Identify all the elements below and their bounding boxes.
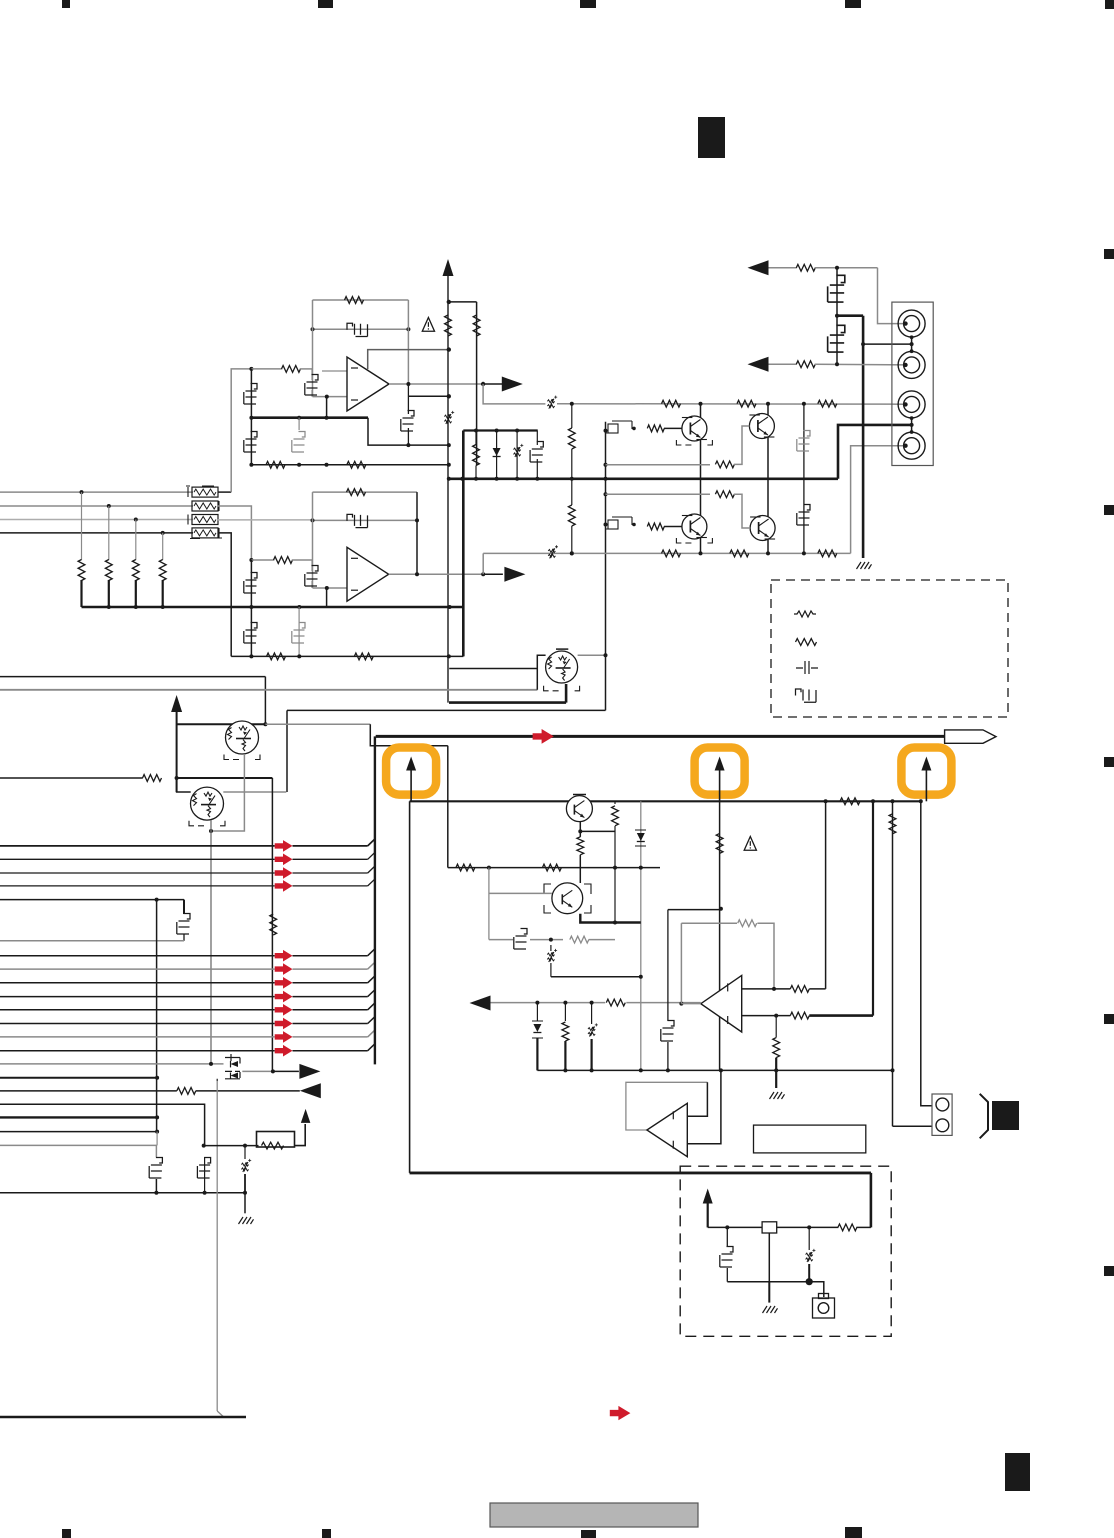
resistor U2 plus bbox=[790, 986, 809, 993]
node chA bias 3 bbox=[325, 416, 329, 420]
registration mark top 1 bbox=[62, 0, 70, 8]
node U2 minus bbox=[774, 1014, 778, 1018]
resistor chB row 1 bbox=[267, 653, 286, 660]
ground left low bbox=[239, 1217, 254, 1224]
wire chA vcc2 vertical bbox=[476, 302, 478, 465]
node vcc pair bbox=[447, 300, 451, 304]
node ctrl b bbox=[563, 1001, 567, 1005]
resistor block row a bbox=[456, 864, 475, 871]
ferrite bead FB2 bbox=[192, 501, 218, 511]
wire rly row out bbox=[295, 1124, 306, 1146]
wire box gnd drop bbox=[768, 1282, 770, 1303]
wire opampA plus stub bbox=[322, 370, 347, 372]
wire U3 plus stub bbox=[687, 1082, 707, 1116]
wire left black 1 bbox=[0, 1077, 157, 1079]
node rail bb5 bbox=[719, 1068, 723, 1072]
wire U2 minus riser thick bbox=[872, 801, 874, 1015]
wire riser channel A bbox=[231, 369, 251, 492]
black index square lower right bbox=[1005, 1453, 1030, 1491]
node rail bb1 bbox=[563, 1068, 567, 1072]
wire chA cap vertical bbox=[298, 418, 300, 430]
resistor R-in3 bbox=[132, 560, 139, 581]
wire output row1 bbox=[557, 403, 906, 406]
transistor T1 bbox=[226, 721, 259, 754]
connector RCA jack pin 2 bbox=[898, 351, 925, 378]
legend resistor straight bbox=[794, 611, 816, 617]
node chA caprow fb bbox=[406, 443, 410, 447]
wire opampA input bbox=[251, 368, 282, 370]
node block row c bbox=[639, 866, 643, 870]
node rail b1 bbox=[474, 477, 478, 481]
ferrite bead FB3 bbox=[192, 515, 218, 525]
node opampA vplus bbox=[447, 347, 451, 351]
registration mark right 1 bbox=[1104, 249, 1114, 259]
wire gate to column bbox=[589, 939, 615, 941]
wire block top bbox=[410, 800, 921, 802]
resistor out left lower bbox=[568, 505, 575, 526]
wire U2 comp top bbox=[668, 909, 721, 911]
wire bus group2 line 2 bbox=[0, 968, 275, 970]
wire opampB fb left vertical bbox=[312, 492, 314, 588]
resistor block row b bbox=[542, 864, 561, 871]
wire left vert 157 bbox=[156, 900, 158, 1132]
varistor chA bbox=[444, 415, 451, 418]
node rail r2 bbox=[107, 605, 111, 609]
node chA row b bbox=[325, 463, 329, 467]
ferrite bead FB1 bbox=[192, 487, 218, 497]
arrow RCA 2 bbox=[748, 357, 769, 372]
wire opampA vplus bbox=[368, 350, 449, 370]
wire collector left bbox=[700, 404, 702, 554]
node left gray bbox=[209, 1062, 213, 1066]
resistor R-in1 bbox=[78, 560, 85, 581]
node branch2 top bbox=[495, 429, 499, 433]
wire TR1 base bend bbox=[734, 426, 750, 464]
red arrow main bus bbox=[533, 729, 554, 744]
wire opampB output bbox=[389, 573, 484, 575]
wire bus group2 line 8 bbox=[0, 1050, 275, 1052]
wire bus group1 line 3 bbox=[0, 872, 275, 874]
node out left bot bbox=[570, 551, 574, 555]
node chA vcc rail bbox=[447, 477, 451, 481]
wire bus group2 line 1 bbox=[0, 955, 275, 957]
node opampB cap left bbox=[311, 518, 315, 522]
wire U2 plus riser bbox=[825, 801, 827, 989]
resistor TR2 base bbox=[715, 491, 734, 498]
wire power corner bbox=[870, 1173, 873, 1228]
mosfet chB upper bbox=[244, 573, 257, 594]
node out row2 a bbox=[570, 551, 574, 555]
wire varistor drop bbox=[550, 945, 552, 951]
wire jack gnd bar top bbox=[911, 337, 913, 352]
transistor T5 bbox=[552, 883, 583, 914]
resistor TL2 base bbox=[647, 523, 664, 530]
highlight orange box 1 bbox=[386, 748, 436, 795]
varistor out row2 bbox=[548, 550, 555, 553]
wire RCA2 bbox=[769, 363, 797, 365]
node chB row c bbox=[447, 654, 451, 658]
wire frame mid bbox=[287, 709, 606, 711]
capacitor opampA feedback bbox=[347, 323, 368, 336]
capacitor left low2 bbox=[197, 1158, 210, 1179]
bias network lower bbox=[608, 520, 618, 529]
wire box bottom rail bbox=[727, 1281, 824, 1283]
resistor block gate bbox=[570, 936, 589, 943]
wire mosfet out gray bbox=[242, 1070, 273, 1072]
wire mosfet out black bbox=[273, 1070, 299, 1072]
node left 1077 bbox=[155, 1076, 159, 1080]
red arrow group1 1 bbox=[275, 840, 293, 852]
wire chA corner to caprow bbox=[368, 418, 449, 445]
registration mark bottom 3 bbox=[581, 1530, 596, 1538]
transistor out TL1 bbox=[682, 416, 707, 441]
node chA bias 2 bbox=[297, 416, 301, 420]
red arrow group1 3 bbox=[275, 867, 293, 879]
node rail b3 bbox=[515, 477, 519, 481]
node chB row a bbox=[249, 654, 253, 658]
wire left gray line bbox=[0, 1063, 224, 1065]
red arrow group2 2 bbox=[275, 963, 293, 975]
node rail cap1 bbox=[154, 1191, 158, 1195]
power arrow small bbox=[301, 1109, 311, 1123]
wire control out2 bbox=[626, 1002, 701, 1004]
red arrow group2 1 bbox=[275, 950, 293, 962]
transistor T4 bbox=[566, 796, 592, 822]
wire U3 box bbox=[626, 1082, 708, 1130]
op-amp channel A bbox=[347, 357, 389, 411]
resistor orange2 riser bbox=[716, 833, 723, 853]
node opampB minus bbox=[325, 586, 329, 590]
wire U3 minus stub bbox=[687, 1070, 721, 1143]
resistor TL1 base bbox=[647, 425, 664, 432]
row block resistors bbox=[448, 867, 660, 869]
node opampA out fb bbox=[406, 382, 410, 386]
wire bias column bbox=[605, 422, 607, 711]
bracket TL2 bbox=[676, 538, 712, 543]
connector RCA jack body bbox=[892, 302, 933, 465]
wire branch top bbox=[463, 429, 537, 431]
red arrow group1 4 bbox=[275, 880, 293, 892]
wire block left bbox=[409, 801, 411, 1173]
wire RCA thick right bbox=[837, 314, 863, 317]
node block top 3 bbox=[891, 799, 895, 803]
registration mark top 2 bbox=[318, 0, 333, 8]
node relay a bbox=[725, 1225, 729, 1229]
highlight orange box 2 bbox=[695, 748, 745, 795]
node input line 3 bbox=[134, 518, 138, 522]
wire TR1 base row bbox=[606, 464, 711, 466]
node rail r4 bbox=[161, 605, 165, 609]
capacitor out lower bbox=[797, 505, 810, 526]
mosfet block gate bbox=[514, 929, 527, 950]
wire T1 collector up bbox=[264, 677, 266, 725]
varistor box bottom bbox=[808, 1227, 810, 1250]
node out left mid bbox=[570, 477, 574, 481]
wire main bus bbox=[376, 735, 945, 738]
capacitor chA output bbox=[401, 411, 414, 432]
resistor ctrl branch2 bbox=[564, 1003, 566, 1021]
wire bus group1 line 1 bbox=[0, 845, 275, 847]
wire resistor R-in3 bottom bbox=[135, 580, 137, 607]
wire frame mid drop bbox=[286, 710, 288, 792]
wire out gray rail bbox=[483, 552, 850, 554]
wire chA minus drop bbox=[326, 397, 328, 418]
ground box bbox=[763, 1306, 778, 1313]
node RCA2 bbox=[835, 362, 839, 366]
mosfet chA upper bbox=[244, 384, 257, 405]
zener branch2 bbox=[496, 431, 498, 479]
wire input line 4 bbox=[0, 532, 193, 534]
wire conn col 2 bbox=[921, 801, 932, 1105]
node left 1131 bbox=[155, 1130, 159, 1134]
wire power thick bottom bbox=[410, 1172, 871, 1175]
node opampA input bbox=[249, 367, 253, 371]
wire left vert157 ext bbox=[156, 1132, 158, 1146]
wire cap chain bbox=[836, 268, 838, 364]
rail supply thick bbox=[448, 477, 838, 480]
wire relay row end bbox=[856, 1226, 871, 1228]
capacitor out upper bbox=[797, 431, 810, 452]
transistor out TR2 bbox=[750, 516, 775, 541]
wire bus group2 line 3 bbox=[0, 982, 275, 984]
registration mark bottom 4 bbox=[845, 1527, 862, 1538]
node rly row a bbox=[202, 1144, 206, 1148]
wire opampA cap row bbox=[313, 328, 409, 330]
node rly row b bbox=[243, 1144, 247, 1148]
node rail b2 bbox=[495, 477, 499, 481]
wire U2 fb top bbox=[681, 922, 737, 924]
bracket T1 bbox=[224, 755, 260, 760]
node chA vcc thick bbox=[448, 605, 452, 609]
wire bus group1 line 4 bbox=[0, 885, 275, 887]
component motor bbox=[813, 1298, 835, 1318]
node RCA mid bbox=[835, 314, 839, 318]
wire input line 2 bbox=[0, 505, 193, 507]
wire opampB fb right vertical bbox=[416, 492, 418, 574]
arrow control out bbox=[470, 996, 491, 1011]
registration mark right 2 bbox=[1104, 505, 1114, 515]
wire T2 emitter long bbox=[210, 820, 212, 1064]
row chA resistor row bbox=[251, 464, 448, 466]
node varistor row bbox=[639, 975, 643, 979]
resistor block top bbox=[840, 798, 860, 805]
resistor branch1 bbox=[473, 445, 480, 466]
resistor VCC A2 bbox=[473, 315, 480, 336]
wire left res line bbox=[0, 1090, 177, 1092]
black index rectangle bbox=[698, 117, 725, 158]
row block gate bbox=[489, 939, 513, 941]
node opampB out tap bbox=[481, 572, 485, 576]
wire RCA1 to corner bbox=[815, 267, 878, 269]
wire RCA2 to jack bbox=[815, 363, 906, 366]
node U2 comp bbox=[719, 907, 723, 911]
wire bus group2 line 4 bbox=[0, 996, 275, 998]
wire vcc column lower bbox=[449, 701, 566, 704]
wire jack gnd bar bottom bbox=[911, 418, 913, 433]
wire T2 corner bbox=[177, 778, 191, 792]
wire center column bbox=[640, 801, 642, 1070]
node opampA out stub bbox=[447, 394, 451, 398]
node chA vcc row bbox=[447, 463, 451, 467]
legend capacitor styled bbox=[796, 689, 817, 702]
registration mark top 4 bbox=[845, 0, 861, 8]
resistor R-in4 bbox=[159, 560, 166, 581]
wire conn col 1 bbox=[892, 801, 894, 1126]
node input line 2 bbox=[107, 504, 111, 508]
wire rly row bbox=[204, 1145, 259, 1147]
ferrite bead FB4 bbox=[192, 528, 218, 538]
resistor TR1 base bbox=[715, 461, 734, 468]
resistor opampB input bbox=[274, 557, 293, 564]
wire relay drop bbox=[768, 1233, 770, 1282]
arrow up highlighted 1 bbox=[406, 757, 416, 771]
node mosfet out bbox=[271, 1069, 275, 1073]
node block gate bbox=[549, 938, 553, 942]
wire TL2 base bbox=[664, 526, 682, 528]
node T1 top bbox=[263, 722, 267, 726]
resistor out row2 a bbox=[662, 550, 681, 557]
node ctrl c bbox=[590, 1001, 594, 1005]
bias network upper bbox=[608, 424, 618, 433]
arrow RCA 1 bbox=[748, 260, 769, 275]
wire control out bbox=[491, 1002, 606, 1004]
node out row1 a bbox=[699, 402, 703, 406]
wire U2 plus row bbox=[742, 988, 791, 990]
mosfet opampA input bbox=[305, 375, 318, 396]
wire cap drop vertical bbox=[183, 900, 185, 914]
wire motor drop bbox=[809, 1282, 824, 1297]
node opampB input bbox=[249, 558, 253, 562]
registration mark top 3 bbox=[580, 0, 596, 8]
node out left top bbox=[570, 402, 574, 406]
wire T5 base bbox=[489, 892, 552, 894]
wire resistor R-in2 bottom bbox=[108, 580, 110, 607]
op-amp U2 bbox=[701, 975, 742, 1032]
node rail bb3 bbox=[639, 1068, 643, 1072]
arrow up highlighted 3 bbox=[921, 757, 931, 771]
node input line 1 bbox=[80, 490, 84, 494]
node chA caprow gnd bbox=[447, 443, 451, 447]
node out row1 c bbox=[802, 402, 806, 406]
resistor control out bbox=[606, 999, 625, 1006]
node branch1 top bbox=[474, 429, 478, 433]
wire bus group1 line 2 bbox=[0, 858, 275, 860]
node block row a bbox=[487, 866, 491, 870]
resistor chA row 2 bbox=[347, 461, 366, 468]
node chB thick 1 bbox=[249, 605, 253, 609]
node opampB out fb bbox=[415, 572, 419, 576]
wire block bottom bbox=[410, 1172, 871, 1175]
node opampA minus bbox=[325, 395, 329, 399]
node bias rail bbox=[604, 477, 608, 481]
wire resistor R-in1 bottom bbox=[80, 580, 82, 607]
node opampA cap right bbox=[406, 327, 410, 331]
wire resistor R-in1 top bbox=[81, 492, 83, 560]
node out row2 d bbox=[802, 551, 806, 555]
wire chB input vertical bbox=[250, 560, 252, 656]
wire U2 gnd drop bbox=[775, 1058, 777, 1088]
wire emitter T3 vertical bbox=[565, 684, 568, 703]
warning triangle channel A bbox=[422, 318, 434, 332]
wire chB cap vertical bbox=[298, 607, 300, 656]
diode center column bbox=[637, 833, 645, 841]
registration mark top right bbox=[1105, 0, 1114, 9]
wire cap column lower bbox=[803, 479, 805, 554]
wire cap low2 drop bbox=[204, 1157, 206, 1193]
wire resistor R-in2 top bbox=[108, 506, 110, 560]
varistor left low bbox=[244, 1146, 246, 1159]
varistor output row1 bbox=[547, 400, 554, 403]
node T emitters bbox=[209, 829, 213, 833]
registration mark right 4 bbox=[1104, 1014, 1114, 1024]
wire chA thick bias bbox=[251, 416, 368, 419]
resistor block r2 bbox=[614, 801, 616, 804]
wire collector bus vertical bbox=[374, 736, 376, 1064]
node chA row c bbox=[249, 463, 253, 467]
wire T1 feed bbox=[0, 676, 265, 678]
connector block 2pin bbox=[932, 1094, 952, 1135]
resistor out left upper bbox=[568, 428, 575, 449]
mosfet dual gate bbox=[225, 1054, 240, 1064]
wire opampA fb right vertical bbox=[407, 300, 409, 383]
red arrow bottom bbox=[610, 1406, 631, 1420]
diode ctrl branch1 bbox=[536, 1003, 538, 1021]
bracket T2 bbox=[189, 821, 225, 826]
node block top 2 bbox=[871, 799, 875, 803]
resistor out row1 c bbox=[818, 400, 837, 407]
wire cap drop top bbox=[0, 899, 184, 901]
wire bead4 to lower row bbox=[218, 533, 232, 657]
black square callout bbox=[992, 1101, 1019, 1130]
node chB row b bbox=[297, 654, 301, 658]
wire U2 minus thick bbox=[809, 1014, 873, 1017]
varistor ctrl branch3 bbox=[591, 1003, 593, 1024]
wire opampB feedback top bbox=[313, 491, 418, 493]
capacitor opampB feedback bbox=[347, 514, 368, 527]
op-amp channel B bbox=[347, 547, 389, 601]
bracket T3 bbox=[544, 686, 580, 691]
row chB resistor row bbox=[231, 655, 463, 657]
wire rowA feed bbox=[483, 384, 545, 404]
registration mark right 5 bbox=[1104, 1266, 1114, 1276]
node rail r3 bbox=[134, 605, 138, 609]
wire mute link top bbox=[449, 668, 537, 670]
op-amp U3 bbox=[647, 1103, 687, 1156]
wire resistor R-in4 top bbox=[162, 533, 164, 560]
wire TR2 base row bbox=[606, 493, 711, 495]
footer gray bar bbox=[490, 1503, 698, 1527]
capacitor left mid bbox=[177, 914, 190, 935]
wire T4 emitter bbox=[579, 822, 581, 837]
node bias lower bbox=[604, 523, 608, 527]
wire cap column upper bbox=[803, 404, 805, 479]
highlight orange box 3 bbox=[901, 748, 951, 795]
resistor RCA1 bbox=[796, 264, 815, 271]
wire T2 right gray bbox=[223, 791, 286, 793]
node RCA gnd tap bbox=[861, 342, 865, 346]
capacitor chA mid bbox=[292, 432, 305, 453]
red arrow group2 6 bbox=[275, 1018, 293, 1030]
node left 1117 bbox=[155, 1115, 159, 1119]
wire opampA output bbox=[389, 383, 483, 385]
mosfet chB lower bbox=[244, 623, 257, 644]
wire gray T1 out bbox=[265, 723, 370, 725]
node branch3 top bbox=[515, 429, 519, 433]
connector bus end bbox=[945, 730, 996, 743]
registration mark right 3 bbox=[1104, 757, 1114, 767]
wire T3 right bbox=[578, 654, 606, 656]
resistor R-in2 bbox=[105, 560, 112, 581]
